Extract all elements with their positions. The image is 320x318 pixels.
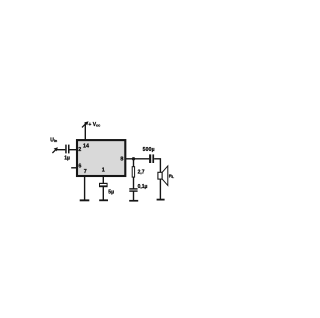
svg-text:2: 2 xyxy=(78,147,81,153)
svg-text:8: 8 xyxy=(120,156,123,162)
svg-text:0,1µ: 0,1µ xyxy=(138,184,148,190)
svg-text:Uin: Uin xyxy=(50,137,58,143)
svg-text:2,7: 2,7 xyxy=(138,169,145,175)
svg-text:14: 14 xyxy=(83,143,89,149)
svg-text:7: 7 xyxy=(84,169,87,175)
svg-text:5µ: 5µ xyxy=(108,189,114,195)
svg-text:RL: RL xyxy=(169,173,174,179)
svg-text:1: 1 xyxy=(102,168,105,174)
svg-text:6: 6 xyxy=(78,164,81,170)
svg-text:+ Vcc: + Vcc xyxy=(88,122,100,128)
svg-text:500µ: 500µ xyxy=(143,147,155,153)
svg-text:1µ: 1µ xyxy=(64,155,70,161)
